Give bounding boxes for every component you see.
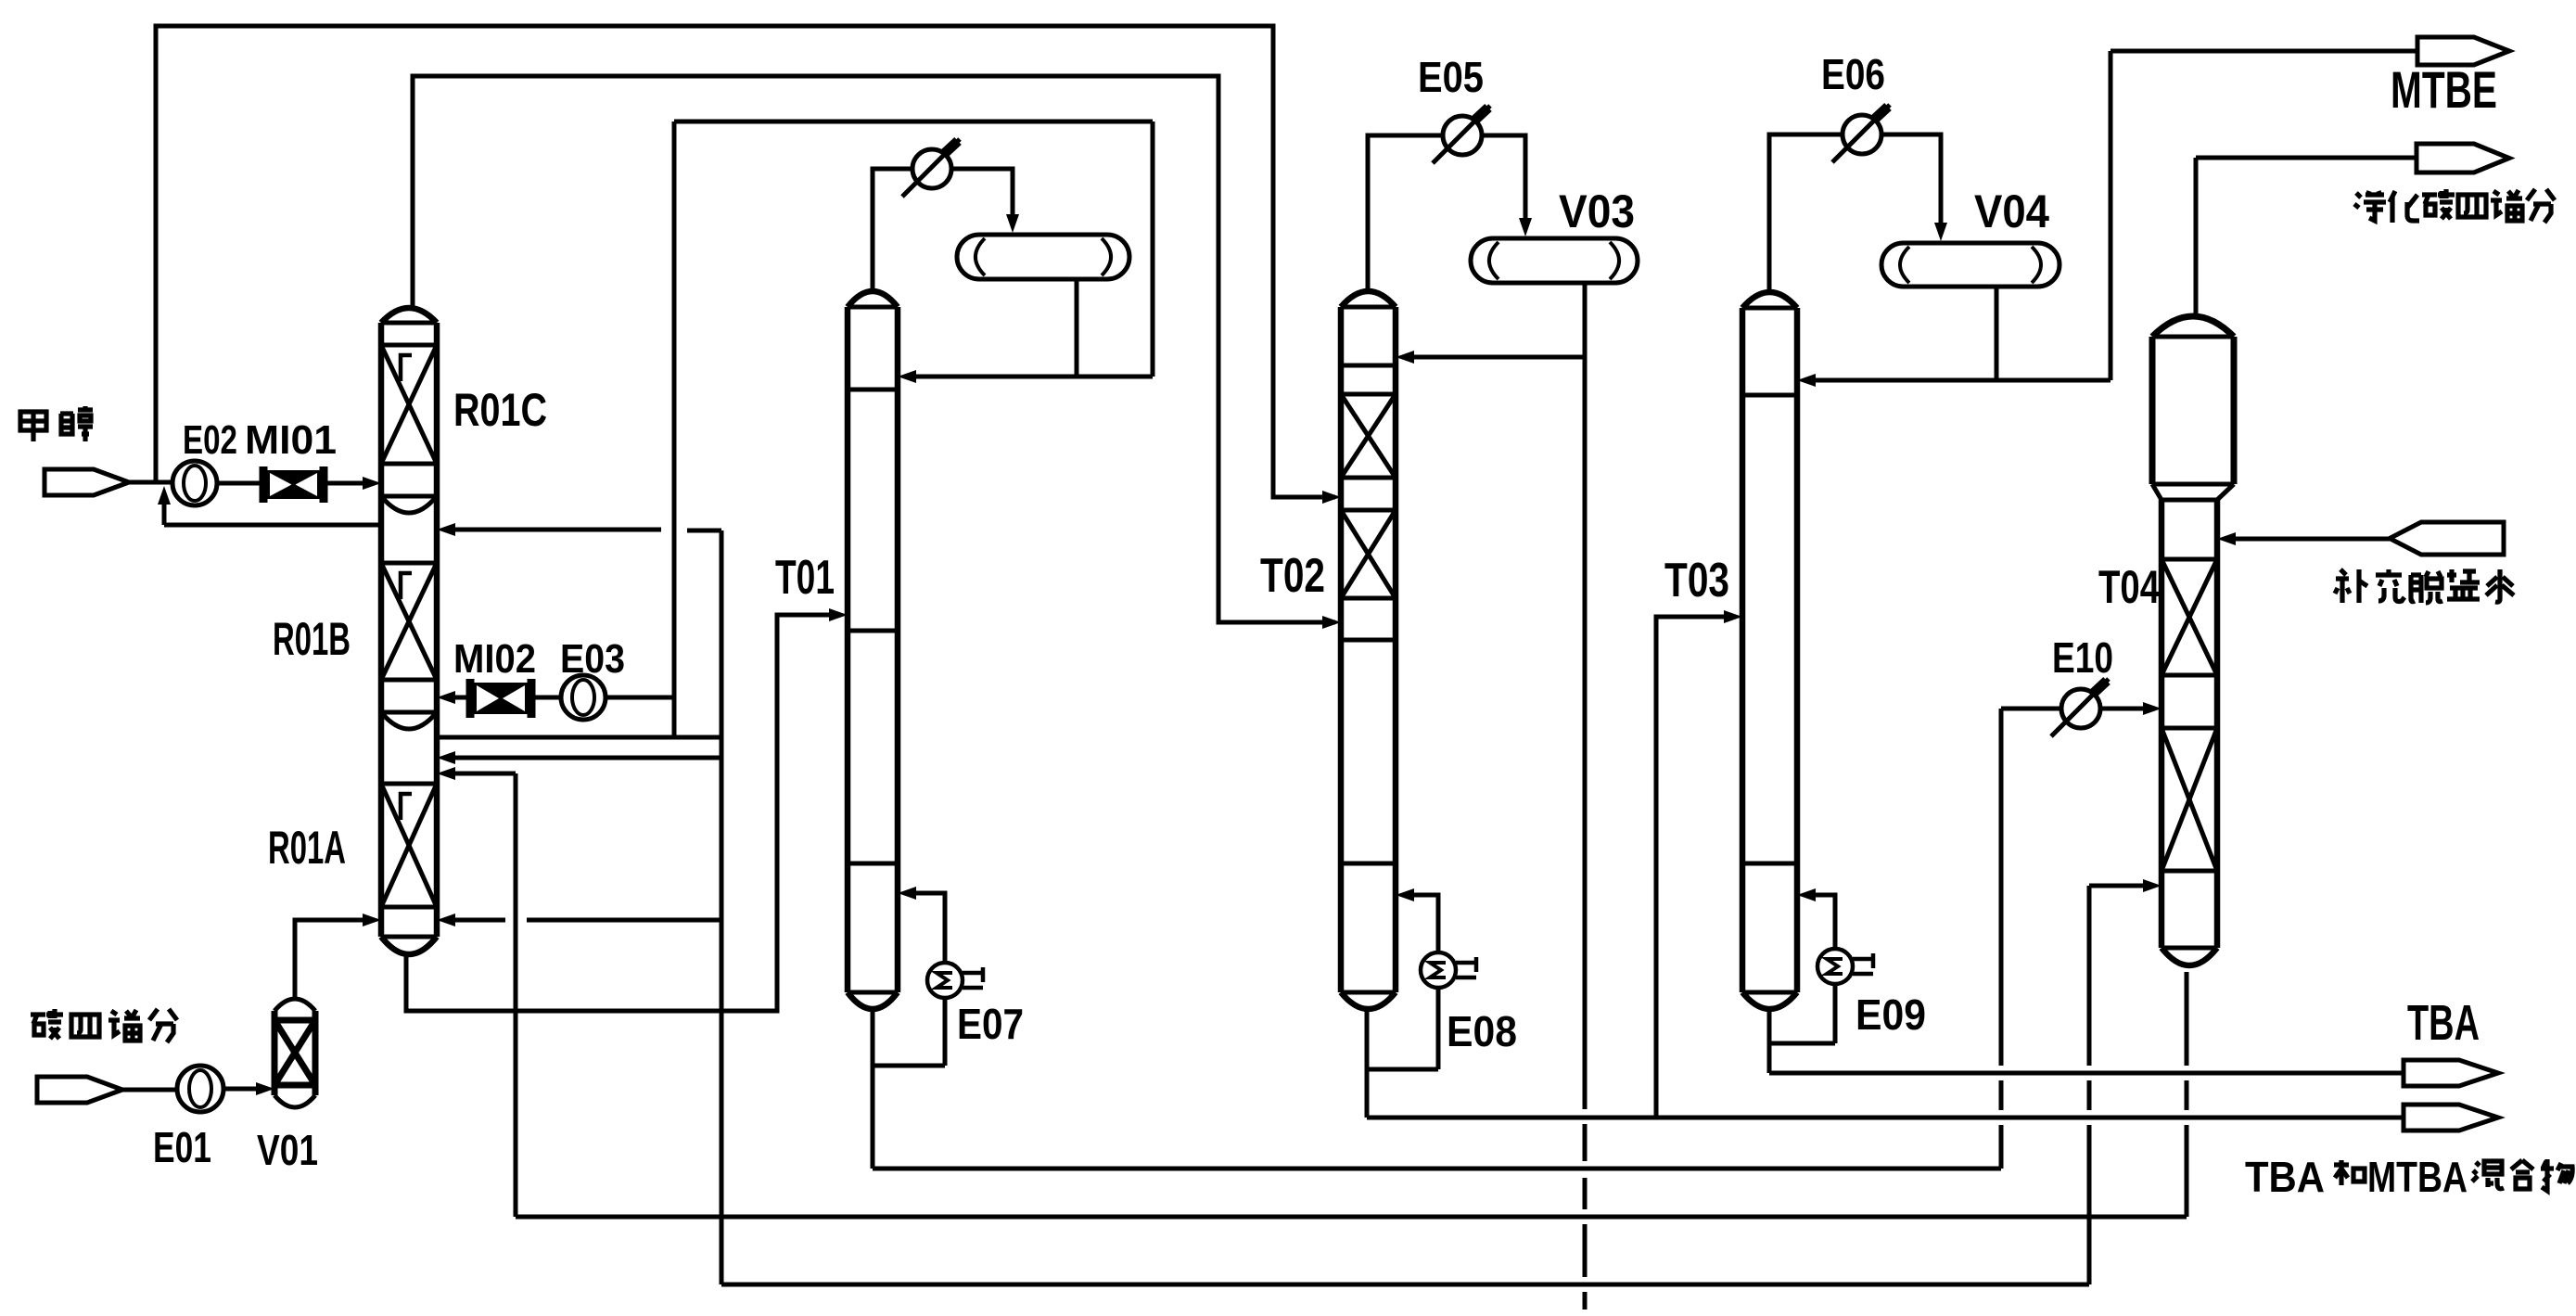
wire T02 bottoms pipe — [1365, 1009, 1370, 1118]
wire V03 outlet down — [1583, 283, 1588, 1100]
wire distillate downcomer x727 — [672, 121, 677, 737]
wire E07 draw-off — [873, 1064, 945, 1068]
desalted water feed flag 补充脱盐水 — [2390, 522, 2504, 555]
svg-text:E10: E10 — [2052, 633, 2113, 682]
T01 cap chord — [848, 305, 898, 310]
R01A bed top line — [381, 782, 437, 786]
wire purified C4 run — [2196, 156, 2415, 160]
T02 cap chord — [1341, 305, 1396, 310]
R01B support chord — [381, 710, 437, 715]
wire T04 bottoms down — [2185, 972, 2189, 1066]
T02 top section line — [1341, 364, 1396, 368]
column T02 shell — [1338, 307, 1345, 992]
wire MI02 to R01B inlet — [450, 696, 470, 700]
wire T02 bottoms to TBA-MTBA header — [1367, 1116, 2404, 1120]
T02 feed section line — [1341, 638, 1396, 643]
T04 shoulder taper — [2152, 484, 2162, 500]
svg-text:E02: E02 — [183, 417, 237, 463]
svg-text:E05: E05 — [1418, 53, 1484, 101]
label 补充脱盐水 — [2335, 569, 2367, 603]
wire recycle header bottom run — [721, 1283, 2089, 1287]
label 甲醇 — [20, 412, 46, 441]
R01C distributor hook — [401, 355, 412, 381]
wire E03 suction tee — [606, 696, 674, 700]
pump E02 — [172, 461, 217, 505]
wire T01 bottoms to E10 — [871, 1009, 875, 1169]
purified C4 flag 净化碳四馏分 — [2417, 144, 2509, 172]
wire T04 lower feed — [2089, 884, 2149, 888]
T01 feed section line — [848, 629, 898, 633]
wire MI01 to R01 inlet — [324, 481, 368, 486]
wire T04 lower feed riser — [2087, 886, 2092, 1066]
wire L1 top recycle to T02 upper feed — [156, 26, 1335, 497]
wire recycle header riser x778 — [720, 530, 724, 1284]
R01B packing X — [381, 563, 437, 680]
svg-text:E07: E07 — [957, 1000, 1024, 1048]
column T04 wide top shell — [2149, 337, 2156, 484]
reflux drum V03 — [1471, 238, 1638, 283]
wire V01 to R01A inlet — [295, 920, 368, 1000]
wire E10 inlet run — [2001, 707, 2061, 711]
svg-text:T01: T01 — [775, 551, 835, 605]
T02 bottom section line — [1341, 862, 1396, 866]
svg-text:E09: E09 — [1855, 990, 1926, 1039]
label 净化碳四馏分 — [2354, 191, 2386, 221]
static mixer MI01 — [260, 466, 268, 503]
wire R01 side draw y566 — [164, 523, 381, 528]
wire MTBE run — [2111, 49, 2416, 54]
wire T01 reflux return — [912, 375, 1153, 379]
C4 feed flag 碳四馏分 — [37, 1077, 122, 1103]
reboiler E07 — [927, 963, 963, 998]
R01B bed top line — [381, 561, 437, 566]
T04 lower bed bottom line — [2162, 869, 2217, 874]
wire V04 outlet down — [1995, 287, 1999, 380]
wire T01 bottoms pipe — [871, 1009, 875, 1169]
wire E01 to guard bed V01 — [223, 1087, 263, 1092]
T04 upper packing X — [2162, 559, 2217, 675]
heat exchanger E06 — [1843, 115, 1881, 154]
T04 neck line — [2162, 498, 2217, 503]
T01 bottom section line — [848, 862, 898, 866]
static mixer MI02 — [466, 679, 475, 718]
wire E08 draw-off — [1367, 1067, 1438, 1072]
wire E10 to T04 mid feed — [2100, 707, 2149, 711]
T01 bottom chord — [848, 990, 898, 995]
R01A packing X — [381, 784, 437, 907]
guard bed V01 shell — [274, 999, 315, 1107]
T03 cap chord — [1742, 306, 1797, 311]
svg-text:E06: E06 — [1821, 50, 1885, 98]
svg-text:T02: T02 — [1260, 549, 1325, 603]
condenser circle (T01 overhead) — [912, 149, 951, 188]
wire T03 bottoms to TBA header — [1769, 1071, 2404, 1076]
column T04 lower shell — [2159, 500, 2165, 948]
wire E06 to V04 — [1881, 134, 1941, 228]
wire E05 to V03 — [1482, 135, 1525, 224]
wire T02 overhead vapor — [1368, 135, 1443, 290]
wire T01 overhead vapor — [873, 169, 912, 290]
T04 upper bed bottom line — [2162, 673, 2217, 678]
pump E03 — [561, 675, 606, 720]
wire MTBE riser — [2109, 51, 2113, 380]
wire E09 return — [1812, 895, 1835, 949]
T02 lower bed top line — [1341, 508, 1396, 513]
svg-text:R01B: R01B — [273, 613, 351, 665]
reflux drum V02 — [957, 235, 1129, 279]
wire T04 bottoms return run — [516, 1215, 2187, 1220]
wire T02 reflux return — [1412, 355, 1585, 360]
wire T04 overhead — [2194, 158, 2199, 316]
wire recycle riser with up arrow — [162, 496, 167, 525]
T03 bottom chord — [1742, 990, 1797, 995]
svg-text:E03: E03 — [560, 636, 625, 682]
T04 wide cap weld line — [2152, 335, 2234, 339]
R01A distributor hook — [401, 794, 412, 820]
TBA and MTBA mixture flag — [2404, 1105, 2498, 1131]
svg-text:V01: V01 — [257, 1126, 318, 1174]
R01B distributor hook — [401, 573, 412, 599]
svg-text:MI01: MI01 — [245, 417, 337, 463]
label 碳四馏分 — [31, 1009, 63, 1039]
wire R01 bottoms to T01 feed — [406, 615, 835, 1011]
R01A bed bottom line — [381, 905, 437, 910]
wire E07 riser lower — [943, 998, 948, 1066]
T04 bottom chord line — [2162, 946, 2217, 951]
wire T03 bottoms pipe — [1767, 1009, 1772, 1073]
T02 bottom chord — [1341, 990, 1396, 995]
T04 lower packing X — [2162, 728, 2217, 871]
wire T03 reflux / MTBE header — [1816, 378, 2111, 383]
wire distillate top run — [674, 120, 1153, 124]
wire methanol feed to pump E02 — [129, 480, 172, 485]
column T01 shell — [845, 307, 851, 992]
svg-text:V04: V04 — [1974, 185, 2049, 237]
svg-text:E01: E01 — [153, 1123, 211, 1171]
wire desalted water to T04 — [2232, 537, 2390, 542]
V01 packing X — [274, 1020, 315, 1085]
wire recycle into R01A y992 — [527, 918, 721, 923]
wire E07 return — [912, 893, 945, 963]
wire recycle into R01B top y571 — [452, 528, 661, 532]
svg-text:T03: T03 — [1664, 554, 1729, 607]
wire E08 return — [1410, 895, 1438, 952]
R01 top cap weld line — [381, 321, 437, 326]
svg-text:E08: E08 — [1447, 1007, 1517, 1055]
R01B support dish — [381, 712, 437, 729]
wire distillate into R01B bottom y795 — [437, 735, 721, 740]
T04 upper bed top line — [2162, 557, 2217, 562]
T02 upper bed top line — [1341, 392, 1396, 397]
wire T03 feed riser — [1656, 617, 1729, 1118]
wire R01 return riser x556 — [514, 773, 518, 1217]
R01A support chord — [381, 935, 437, 939]
T03 bottom section line — [1742, 862, 1797, 866]
methanol feed flag 甲醇 — [45, 469, 129, 495]
wire E08 riser lower — [1436, 988, 1441, 1069]
wire C4 feed to pump E01 — [122, 1088, 177, 1092]
wire V03 outlet dashed continuation — [1583, 1100, 1588, 1109]
V01 bottom line — [274, 1082, 315, 1089]
reboiler E08 — [1421, 952, 1456, 988]
R01B bed bottom line — [381, 678, 437, 683]
wire E09 riser lower — [1833, 984, 1838, 1043]
reboiler E09 — [1817, 949, 1853, 984]
T02 upper packing X — [1341, 394, 1396, 478]
reactor column R01 shell — [378, 323, 385, 937]
wire distillate riser (right of box) — [1151, 121, 1155, 377]
wire drum outlet down — [1075, 279, 1079, 377]
R01C support dish — [381, 496, 437, 513]
svg-text:V03: V03 — [1559, 185, 1635, 237]
wire return into R01A y834 — [452, 772, 516, 776]
svg-text:MTBE: MTBE — [2391, 60, 2497, 119]
svg-text:T04: T04 — [2098, 561, 2160, 613]
svg-text:R01A: R01A — [268, 822, 346, 874]
T01 top section line — [848, 388, 898, 392]
wire E03 to MI02 — [531, 696, 561, 700]
T02 lower packing X — [1341, 510, 1396, 598]
svg-text:MI02: MI02 — [453, 636, 536, 682]
wire condenser to reflux drum — [951, 169, 1013, 218]
svg-text:R01C: R01C — [453, 384, 547, 436]
svg-text:MTBA: MTBA — [2367, 1153, 2468, 1201]
T02 upper bed bottom line — [1341, 476, 1396, 480]
wire distillate into R01 y817 — [452, 756, 721, 760]
R01C bed top line — [381, 343, 437, 348]
MTBE product flag — [2417, 37, 2509, 65]
T04 lower bed top line — [2162, 726, 2217, 731]
R01C support chord — [381, 494, 437, 499]
heat exchanger E10 — [2061, 689, 2100, 728]
V01 top line — [274, 1017, 315, 1024]
column T03 shell — [1740, 308, 1746, 992]
wire L2 R01 overhead to T02 lower feed — [413, 76, 1335, 622]
TBA product flag — [2404, 1060, 2498, 1086]
pump E01 — [177, 1066, 223, 1112]
wire E09 draw-off — [1769, 1041, 1835, 1046]
heat exchanger E05 — [1443, 116, 1482, 155]
wire E02 to mixer MI01 — [217, 481, 263, 486]
svg-text:TBA: TBA — [2245, 1153, 2325, 1201]
R01C packing X — [381, 345, 437, 464]
reflux drum V04 — [1881, 243, 2060, 287]
svg-text:TBA: TBA — [2407, 995, 2480, 1051]
T02 lower bed bottom line — [1341, 596, 1396, 601]
R01C bed bottom line — [381, 462, 437, 466]
T03 top section line — [1742, 393, 1797, 398]
wire T03 overhead vapor — [1769, 134, 1843, 293]
